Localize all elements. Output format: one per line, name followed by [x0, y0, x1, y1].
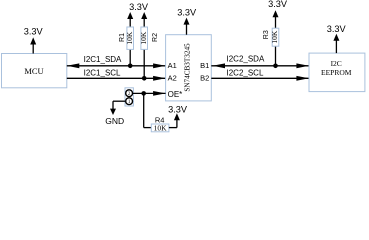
svg-text:B1: B1: [200, 61, 209, 70]
power 3.3V at R1 R2: [127, 2, 149, 27]
net label I2C1_SDA: [84, 55, 122, 64]
value 10K of R2: [139, 31, 148, 45]
svg-text:B2: B2: [200, 74, 209, 83]
wire I2C1_SDA: [67, 65, 166, 67]
wire jumper pin1 to GND: [113, 101, 125, 109]
svg-text:A1: A1: [168, 61, 177, 70]
label R4: [155, 115, 165, 124]
label R1: [119, 33, 126, 42]
svg-text:10K: 10K: [270, 30, 279, 44]
arrowhead into pin A2: [153, 76, 166, 81]
I2C EEPROM block: [309, 53, 365, 92]
resistor R1: [127, 27, 134, 66]
jumper J1 body: [125, 88, 133, 106]
arrowhead into EEPROM (SCL): [296, 76, 309, 81]
svg-text:EEPROM: EEPROM: [321, 68, 352, 77]
arrowhead into EEPROM (SDA): [296, 63, 309, 68]
label MCU: [24, 66, 43, 76]
net label I2C2_SCL: [227, 68, 264, 77]
svg-text:GND: GND: [105, 116, 124, 126]
svg-text:OE*: OE*: [168, 90, 183, 99]
wire I2C2_SDA: [211, 65, 309, 67]
label R3: [263, 30, 270, 39]
jumper pin 2: [126, 90, 133, 97]
junction R2-SCL: [142, 76, 147, 81]
jumper pin 1: [126, 98, 133, 105]
power 3.3V at R3: [268, 0, 288, 28]
junction R1-SDA: [128, 64, 133, 69]
svg-text:R3: R3: [263, 30, 270, 39]
svg-text:3.3V: 3.3V: [327, 24, 347, 34]
svg-text:R2: R2: [152, 33, 159, 42]
power 3.3V at R4: [168, 104, 188, 120]
level shifter U1 SN74CB3T3245: [166, 35, 212, 101]
svg-text:MCU: MCU: [24, 66, 43, 76]
value 10K of R1: [125, 31, 134, 45]
label R2: [152, 33, 159, 42]
power 3.3V at U1: [177, 7, 197, 34]
resistor R4: [151, 124, 169, 132]
svg-text:3.3V: 3.3V: [168, 104, 188, 114]
pin B1: [200, 61, 209, 70]
svg-text:I2C1_SCL: I2C1_SCL: [84, 69, 121, 78]
wire I2C2_SCL: [211, 77, 309, 79]
svg-text:I2C2_SDA: I2C2_SDA: [227, 55, 265, 64]
resistor R2: [141, 27, 148, 78]
wire R4 to 3.3V: [169, 119, 177, 128]
svg-text:I2C: I2C: [331, 59, 342, 68]
svg-text:10K: 10K: [154, 124, 168, 133]
pin A1: [168, 61, 177, 70]
value 10K of R4: [154, 124, 168, 133]
net label I2C2_SDA: [227, 55, 265, 64]
svg-text:10K: 10K: [139, 31, 148, 45]
label I2C EEPROM: [321, 59, 352, 77]
label SN74CB3T3245: [183, 43, 191, 92]
svg-text:I2C1_SDA: I2C1_SDA: [84, 55, 122, 64]
svg-text:3.3V: 3.3V: [129, 2, 149, 12]
arrowhead into pin OE*: [153, 91, 166, 96]
junction R3-SDA: [273, 64, 278, 69]
ground GND: [105, 109, 124, 127]
wire jumper pin2 to OE*: [133, 92, 166, 94]
power 3.3V at EEPROM: [327, 24, 347, 53]
svg-text:10K: 10K: [125, 31, 134, 45]
power 3.3V at MCU: [24, 27, 44, 54]
arrowhead into MCU (SDA): [67, 63, 80, 68]
svg-text:I2C2_SCL: I2C2_SCL: [227, 68, 264, 77]
svg-text:3.3V: 3.3V: [268, 0, 288, 9]
svg-text:3.3V: 3.3V: [177, 7, 197, 17]
arrowhead into pin A1: [153, 63, 166, 68]
pin A2: [168, 74, 177, 83]
pin B2: [200, 74, 209, 83]
net label I2C1_SCL: [84, 69, 121, 78]
junction OE-R4: [141, 91, 146, 96]
wire I2C1_SCL: [67, 77, 166, 79]
arrowhead into pin B1: [213, 63, 226, 68]
svg-text:SN74CB3T3245: SN74CB3T3245: [183, 43, 191, 92]
value 10K of R3: [270, 30, 279, 44]
svg-text:3.3V: 3.3V: [24, 27, 44, 37]
svg-text:A2: A2: [168, 74, 177, 83]
wire junction to R4: [144, 93, 152, 127]
pin OE*: [168, 90, 183, 99]
resistor R3: [272, 28, 279, 66]
MCU block: [2, 54, 67, 88]
